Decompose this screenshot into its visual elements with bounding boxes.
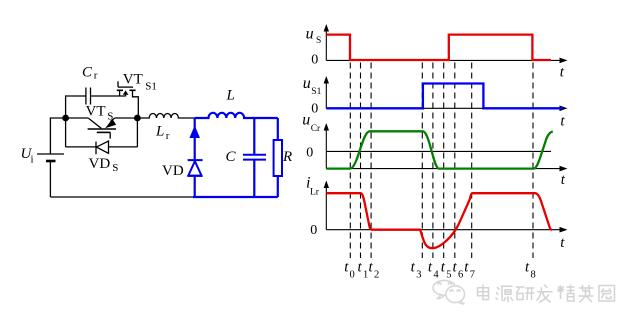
axis uS up arrowhead [324,24,329,32]
transistor VTS1 gate lead [117,81,119,87]
CIRCUIT-BLUE [193,113,282,197]
svg-text:R: R [282,149,292,165]
waveform iLr red [326,193,552,248]
wire blue bottom [193,196,278,198]
svg-text:7: 7 [470,269,475,280]
transistor VTS1 contact bar left [117,89,123,91]
svg-text:8: 8 [531,269,536,280]
char yan [516,287,535,300]
watermark text dianyuanyanfajingyingquan [478,285,615,303]
char dian [478,285,489,300]
diode VD anode bar [188,175,202,177]
watermark wechat icon small bubble [446,286,465,303]
axis uCr right arrowhead [560,166,568,172]
watermark wechat icon big bubble eyes [438,283,451,284]
transistor VTS1 body arrow stem [125,95,127,97]
svg-text:6: 6 [458,269,463,280]
char fa [537,285,553,303]
char yuan [496,286,514,302]
transistor VTS1 gate bar [118,86,133,88]
svg-text:0: 0 [310,223,317,238]
wire blue top with inductor L coil [195,113,278,118]
svg-text:S: S [112,162,118,174]
diode VD cathode bar [188,159,203,161]
svg-text:VT: VT [123,72,143,88]
wire bottom black [50,196,193,198]
diode VDS branch left vertical [65,118,67,147]
dashed line t7 [471,63,473,259]
wire top branch left vertical [66,96,86,118]
capacitor C plate top [243,154,266,156]
waveform uCr green [326,131,553,168]
svg-text:u: u [306,26,314,43]
capacitor C plate bottom [243,159,266,161]
capacitor Cr plate right [90,88,92,105]
svg-text:r: r [94,69,98,81]
svg-text:r: r [166,130,170,142]
watermark wechat icon small bubble tail [459,301,464,303]
wire left leg and main wire left segment [50,118,88,154]
svg-text:C: C [226,149,237,165]
dashed line t4 [432,63,434,259]
svg-text:VD: VD [162,163,184,179]
svg-text:5: 5 [446,269,451,280]
node left junction dot [62,115,69,122]
wire Cr to VTS1 [91,95,126,97]
AXES [326,27,564,230]
char ying [579,285,594,303]
svg-text:C: C [82,65,93,81]
svg-text:S1: S1 [311,87,321,97]
svg-text:S: S [316,36,321,46]
svg-text:1: 1 [363,269,368,280]
diode VD triangle [188,161,201,175]
axis uCr up arrowhead [324,123,329,131]
svg-text:4: 4 [433,269,439,280]
transistor VTS emitter diagonal [111,118,115,122]
WAVEFORM DASHED TIME LINES [350,63,533,259]
axis uCr vertical [325,126,327,169]
svg-text:0: 0 [306,146,313,161]
transistor VTS1 body arrow [123,90,129,94]
axis iLr up arrowhead [324,181,329,189]
dashed line t3 [421,63,423,259]
waveform uS red [326,35,551,60]
svg-text:2: 2 [374,269,379,280]
svg-text:VT: VT [86,104,106,120]
voltage source Ui short plate [46,160,56,163]
axis uS horizontal [326,59,564,61]
svg-text:0: 0 [350,269,355,280]
char quan [599,286,615,302]
resistor R top lead [277,118,279,140]
svg-text:0: 0 [311,102,318,117]
dashed line t8 [532,63,534,259]
axis uCr horizontal [326,168,564,170]
watermark wechat icon big bubble tail [437,295,444,299]
char jing [557,285,575,302]
svg-text:Lr: Lr [310,187,320,197]
svg-text:L: L [226,88,235,104]
watermark wechat icon big bubble [433,280,456,295]
capacitor C top lead [253,118,255,154]
dashed line t1 [360,63,362,259]
svg-text:Cr: Cr [311,124,321,134]
axis uS1 vertical [325,79,327,108]
axis uS1 right arrowhead [560,106,568,112]
resistor R bottom lead [277,176,279,197]
diode VDS branch right vertical [136,118,138,147]
wire right node to Lr and inductor Lr coil [137,114,194,119]
diode VD branch vertical wire [194,118,196,197]
diode VDS cathode bar [95,142,97,155]
diode VDS triangle [96,141,108,153]
transistor VTS gate bar [97,131,111,133]
resistor R body [274,140,282,176]
axis iLr right arrowhead [560,227,568,233]
axis iLr horizontal [326,229,564,231]
svg-text:3: 3 [416,269,421,280]
capacitor C bottom lead [253,160,255,197]
TIME TICK LABELS [344,259,530,275]
svg-text:S: S [107,110,113,122]
svg-text:VD: VD [89,156,111,172]
capacitor Cr plate left [85,88,87,105]
voltage source Ui long plate [37,153,64,155]
transistor VTS1 source stub [119,90,121,96]
wire main right segment [115,117,138,119]
svg-text:u: u [303,75,311,92]
axis uS vertical [325,27,327,60]
transistor VTS gate lead [109,132,111,138]
svg-text:0: 0 [311,53,318,68]
wire battery bottom lead [49,161,51,197]
dashed line t6 [454,63,456,259]
waveform uS1 blue [326,84,563,109]
transistor VTS main bar [88,128,116,130]
node right junction dot [134,115,141,122]
axis uS1 up arrowhead [324,76,329,84]
watermark wechat icon small bubble eyes [450,289,460,292]
axis iLr vertical [325,184,327,230]
diode VD current arrow filled [189,125,200,138]
axis uS right arrowhead [560,58,568,64]
axis uCr zero line [326,150,551,152]
WATERMARK [433,280,465,303]
transistor VTS1 contact bar right [129,89,135,91]
transistor VTS1 drain stub and wire to right vertical [133,90,139,118]
svg-text:u: u [302,112,310,129]
svg-text:L: L [155,124,164,140]
CIRCUIT-BLACK [37,81,195,197]
svg-text:i: i [31,154,34,166]
svg-text:S1: S1 [145,80,157,92]
axis uS1 horizontal [326,107,564,109]
wire VDS branch horizontal [66,146,138,148]
dashed line t5 [443,63,445,259]
transistor VTS emitter arrowhead [105,119,116,128]
transistor VTS collector diagonal [88,118,101,128]
dashed line t0 [349,63,351,259]
dashed line t2 [370,63,372,259]
